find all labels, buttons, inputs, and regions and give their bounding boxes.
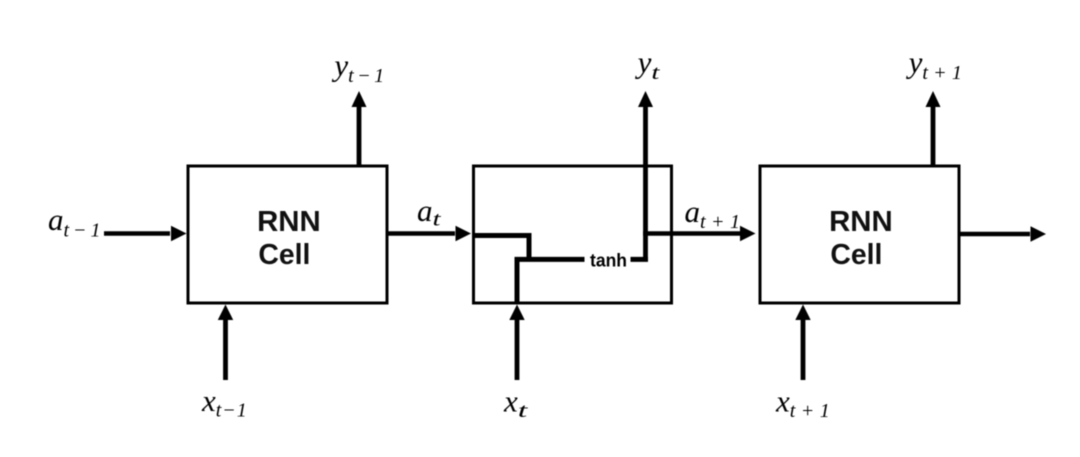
svg-text:tanh: tanh [590,251,627,271]
svg-text:RNN: RNN [829,206,893,238]
svg-text:Cell: Cell [258,239,310,271]
svg-text:RNN: RNN [257,206,321,238]
svg-text:Cell: Cell [830,239,882,271]
